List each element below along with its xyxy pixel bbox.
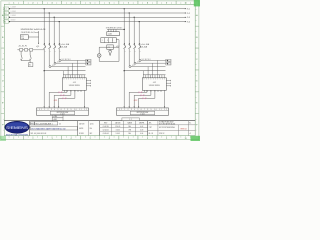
- wire T1 hairpin group 1: [66, 90, 68, 92]
- breaker Q2 pole 4: [139, 44, 141, 48]
- svg-text:BL. 03: BL. 03: [149, 133, 154, 135]
- wire T1 hairpin group 2: [146, 90, 148, 92]
- svg-text:+2: +2: [189, 133, 191, 135]
- project row box: [35, 122, 58, 125]
- wire drop phase 3 group 2: [134, 17, 135, 18]
- svg-text:5.4: 5.4: [168, 63, 170, 65]
- right section grid: [157, 121, 159, 136]
- annotation leader wire: [28, 36, 38, 38]
- breaker Q2 pole 1: [124, 44, 126, 48]
- pin rail above device box group 1: [63, 74, 86, 76]
- terminal strip X1 divider: [37, 109, 89, 111]
- svg-text:PROJ: PROJ: [31, 123, 35, 125]
- breaker Q2 pole 3: [134, 44, 136, 48]
- svg-text:/5.1: /5.1: [187, 9, 190, 11]
- frame column ticks bottom: [22, 136, 24, 140]
- svg-text:SIRIUS 3RW30: SIRIUS 3RW30: [149, 85, 160, 87]
- interruption point upper group 2: [166, 59, 171, 62]
- breaker Q1 pole 2: [49, 44, 51, 48]
- svg-text:1L1 3L2 5L3: 1L1 3L2 5L3: [142, 59, 151, 61]
- svg-text:-F1: -F1: [21, 36, 24, 38]
- description row box: [30, 127, 77, 130]
- svg-text:NORM: NORM: [79, 133, 84, 135]
- lamp P1: [30, 49, 33, 52]
- wire below breaker 1 group 2: [123, 48, 125, 70]
- sheet background: [0, 0, 200, 141]
- frame column ticks top: [22, 1, 24, 4]
- svg-text:-U1: -U1: [73, 82, 76, 84]
- plug connector -X1.2: [61, 94, 62, 96]
- plug connector -X2.2: [141, 94, 142, 96]
- bus L2 left potential label: [4, 11, 9, 14]
- svg-text:SIRIUS 3RW30: SIRIUS 3RW30: [69, 85, 80, 87]
- svg-text:12.4.05: 12.4.05: [115, 126, 120, 128]
- revision table grid: [111, 121, 113, 136]
- wire T2 hairpin group 1: [70, 90, 72, 95]
- sheet scale box above revision table: [122, 118, 139, 121]
- arrows into terminal strip group 1: [44, 106, 45, 108]
- interruption point upper group 1: [86, 59, 91, 62]
- interruption point lower group 2: [166, 62, 171, 65]
- plug connector -X2.3: [143, 97, 144, 99]
- svg-text:-U2: -U2: [153, 82, 156, 84]
- wire below breaker 3 group 2: [133, 48, 135, 62]
- svg-text:1 : 1: 1 : 1: [129, 119, 132, 121]
- node L2 turn group 2: [129, 66, 131, 68]
- wire T3 hairpin group 2: [154, 90, 156, 98]
- node L1 turn group 2: [124, 70, 125, 71]
- svg-text:12.05: 12.05: [90, 123, 94, 125]
- plug connector -X1.1: [59, 91, 60, 93]
- frame row ticks right: [195, 25, 199, 27]
- svg-text:9.9.05: 9.9.05: [116, 133, 120, 135]
- wire T2 hairpin group 2: [150, 90, 152, 95]
- frame outer border right: [198, 1, 200, 140]
- svg-text:2T1: 2T1: [137, 62, 140, 64]
- svg-text:GEPR.: GEPR.: [79, 128, 84, 130]
- corner accent top-right: [194, 0, 200, 6]
- switch contact S2 stem: [29, 51, 31, 55]
- node N turn group 2: [139, 59, 141, 61]
- device box top pins group 2: [143, 75, 145, 78]
- svg-text:L3/400V: L3/400V: [11, 15, 16, 17]
- wire below breaker 2 group 1: [48, 48, 50, 65]
- bus L1 left potential label: [4, 7, 9, 10]
- bus L3 right interruption arrow: [185, 17, 187, 18]
- terminal strip X1 outer box: [37, 108, 89, 115]
- svg-text:/5.2: /5.2: [187, 13, 190, 15]
- svg-text:NR. 04 | 400-SK1-03: NR. 04 | 400-SK1-03: [31, 133, 47, 135]
- wire drop phase 2 group 2: [129, 12, 130, 13]
- svg-text:VON 12: VON 12: [159, 133, 165, 135]
- svg-text:-X1 1 2 3 4 5 6 7 8 9 10 11 12: -X1 1 2 3 4 5 6 7 8 9 10 11 12: [38, 109, 87, 111]
- frame minor ticks right: [195, 9, 196, 11]
- control loop top wire: [99, 46, 119, 48]
- terminal strip X2 inner label box: [130, 111, 154, 115]
- wire below breaker 1 group 1: [43, 48, 45, 70]
- frame minor ticks left: [3, 9, 4, 11]
- frame minor ticks top: [8, 2, 10, 4]
- control feed wire group 2: [107, 28, 124, 30]
- wire drop phase 3 group 1: [54, 17, 55, 18]
- breaker Q2 pole 2: [129, 44, 131, 48]
- node L2 turn group 1: [49, 66, 51, 68]
- arrows into terminal strip group 2: [124, 106, 125, 108]
- svg-text:4T2: 4T2: [132, 65, 135, 67]
- svg-text:5.2: 5.2: [88, 60, 90, 62]
- wire drop phase 1 group 1: [44, 8, 45, 9]
- control loop bottom wire: [99, 60, 119, 62]
- svg-text:MOTOR M1 4kW: MOTOR M1 4kW: [57, 112, 69, 114]
- bus L3 left potential label: [4, 16, 9, 19]
- node N turn group 1: [59, 59, 61, 61]
- wire below breaker 4 group 1: [58, 48, 60, 59]
- svg-text:4T2: 4T2: [52, 65, 55, 67]
- wire T3 hairpin group 1: [74, 90, 76, 98]
- soft starter U1 box: [62, 78, 86, 91]
- pilot bottom wire: [21, 60, 30, 62]
- svg-text:-XS2: -XS2: [134, 100, 138, 102]
- svg-text:INDUSTRIAL SYSTEMS: INDUSTRIAL SYSTEMS: [6, 133, 29, 136]
- frame outer border left: [0, 1, 2, 140]
- svg-text:3.6.05: 3.6.05: [116, 129, 120, 131]
- control loop left lower wire: [98, 57, 100, 61]
- svg-text:6,3-10A: 6,3-10A: [61, 46, 68, 49]
- terminal row box group 2: [101, 38, 117, 43]
- wire module to loop group 2: [116, 39, 119, 41]
- svg-text:01.02.99: 01.02.99: [103, 126, 109, 128]
- wire drop phase 4 group 1: [59, 21, 60, 22]
- wire drop phase 1 group 2: [124, 8, 125, 9]
- svg-text:5.2: 5.2: [168, 60, 170, 62]
- location label box upper: [52, 115, 63, 118]
- horn H2 symbol: [109, 51, 112, 56]
- svg-text:1: 1: [102, 40, 103, 42]
- svg-text:MOTOR M2 4kW: MOTOR M2 4kW: [137, 112, 149, 114]
- svg-text:REV 04: REV 04: [181, 129, 187, 131]
- plug connector -X2.1: [139, 91, 140, 93]
- device box top pins group 1: [63, 75, 65, 78]
- device box right stubs group 1: [86, 80, 90, 82]
- bus L2 line: [10, 12, 186, 14]
- bus L1 right interruption arrow: [185, 8, 187, 9]
- supply terminal box -F1: [20, 35, 28, 40]
- wire below breaker 4 group 2: [138, 48, 140, 59]
- svg-text:K1: K1: [29, 65, 31, 67]
- svg-text:URSPR.: URSPR.: [139, 122, 145, 124]
- interruption point lower group 1: [86, 62, 91, 65]
- node L1 turn group 1: [44, 70, 45, 71]
- pushbutton S1: [20, 49, 23, 52]
- svg-text:SIEMENS: SIEMENS: [6, 126, 29, 130]
- svg-text:2T1: 2T1: [57, 62, 60, 64]
- device box bottom pins group 1: [63, 90, 65, 92]
- svg-text:/5.3: /5.3: [187, 17, 190, 19]
- switch stem arrowheads: [21, 59, 22, 60]
- plug connector -X1.3: [63, 97, 64, 99]
- wire L1 down to strip group 2: [123, 71, 125, 107]
- title block mid verticals: [77, 121, 79, 136]
- svg-text:MH: MH: [129, 126, 131, 128]
- corner accent bottom-right: [191, 136, 201, 141]
- project header mini cell: [30, 122, 34, 125]
- svg-text:KH: KH: [90, 128, 92, 130]
- svg-text:6,3-10A: 6,3-10A: [141, 46, 148, 49]
- junction box K1A: [28, 63, 33, 67]
- breaker Q1 pole 4: [59, 44, 61, 48]
- wire L1 down to strip group 1: [43, 71, 45, 107]
- location label box lower: [52, 118, 63, 121]
- bus L3 line: [10, 16, 186, 18]
- svg-text:02.04.01: 02.04.01: [103, 129, 109, 131]
- node L3 turn group 2: [134, 62, 136, 64]
- svg-text:MOTORABZWEIG SANFTSTARTER M1: MOTORABZWEIG SANFTSTARTER M1 / M2: [31, 127, 65, 130]
- breaker Q1 pole 3: [54, 44, 56, 48]
- svg-text:MOTORSTEUERUNG: MOTORSTEUERUNG: [159, 127, 176, 129]
- svg-text:-X2 1 2 3 4 5 6 7 8 9 10 11 12: -X2 1 2 3 4 5 6 7 8 9 10 11 12: [118, 109, 167, 111]
- relay module A2 box: [107, 32, 120, 36]
- annotation leader arrow: [38, 43, 39, 44]
- breaker Q1 pole 1: [44, 44, 46, 48]
- soft starter U2 pin numbers: [143, 78, 145, 79]
- corner accent bottom-left: [0, 136, 6, 141]
- thermistor relay F2 box: [107, 45, 114, 49]
- company logo ellipse: [5, 121, 29, 133]
- svg-text:ZULEITUNG 5x2,5mm2: ZULEITUNG 5x2,5mm2: [21, 32, 39, 34]
- bus N left potential label: [4, 20, 9, 23]
- svg-text:WB: WB: [128, 129, 130, 131]
- wire below breaker 3 group 1: [53, 48, 55, 62]
- frame minor ticks bottom: [8, 136, 10, 138]
- control loop right wire: [118, 47, 120, 61]
- relay module pins group 2: [108, 29, 110, 31]
- riser wires to device box group 2: [143, 71, 145, 75]
- svg-text:4.03: 4.03: [140, 129, 143, 131]
- svg-text:L2/400V: L2/400V: [11, 11, 16, 13]
- svg-text:N/400V: N/400V: [11, 20, 16, 22]
- frame row ticks left: [1, 25, 4, 27]
- wire drop phase 4 group 2: [139, 21, 140, 22]
- svg-text:-XS1: -XS1: [54, 100, 58, 102]
- bus L1 line: [10, 8, 186, 10]
- frame outer border top: [1, 0, 199, 2]
- svg-text:4.02: 4.02: [140, 126, 143, 128]
- bus N line: [10, 21, 186, 23]
- wire N down group 2: [164, 90, 166, 106]
- svg-text:MH: MH: [129, 133, 131, 135]
- riser wires to device box group 1: [63, 71, 65, 75]
- device box right stubs group 2: [166, 80, 170, 82]
- wire below breaker 2 group 2: [128, 48, 130, 65]
- svg-text:ORT: ORT: [149, 127, 152, 129]
- terminal strip X1 inner label box: [50, 111, 74, 115]
- frame outer border bottom: [1, 139, 199, 141]
- svg-text:L1/400V: L1/400V: [11, 7, 16, 9]
- svg-text:3~400V: 3~400V: [140, 114, 145, 116]
- node L3 turn group 1: [54, 62, 56, 64]
- lamp P2 circle: [98, 47, 100, 53]
- bus L2 right interruption arrow: [185, 12, 187, 13]
- soft starter U2 box: [142, 78, 166, 91]
- svg-text:-S1 -S2 -P1: -S1 -S2 -P1: [18, 45, 27, 47]
- pilot wiring top: [17, 49, 19, 51]
- svg-text:4.04: 4.04: [140, 133, 143, 135]
- wire N down group 1: [84, 90, 86, 106]
- svg-text:/5.4: /5.4: [187, 21, 190, 23]
- title block logo cell divider: [29, 121, 31, 136]
- wire from S2 to junction box: [29, 61, 31, 63]
- svg-text:03.09.04: 03.09.04: [103, 133, 109, 135]
- device box bottom pins group 2: [143, 90, 145, 92]
- pin rail above device box group 2: [143, 74, 166, 76]
- bus N right interruption arrow: [185, 21, 187, 22]
- svg-text:1L1 3L2 5L3: 1L1 3L2 5L3: [62, 59, 71, 61]
- svg-text:5.4: 5.4: [88, 63, 90, 65]
- terminal strip X2 outer box: [117, 108, 169, 115]
- svg-text:-F2: -F2: [108, 47, 110, 49]
- soft starter U1 pin numbers: [63, 78, 65, 79]
- svg-text:04: 04: [59, 123, 61, 125]
- pushbutton S2: [25, 49, 28, 52]
- frame inner border: [4, 4, 195, 135]
- svg-text:MCC-400V ANLAGE 1: MCC-400V ANLAGE 1: [36, 122, 53, 125]
- title block top border: [4, 120, 195, 122]
- terminal strip X2 divider: [117, 109, 169, 111]
- wire drop phase 2 group 1: [49, 12, 50, 13]
- svg-text:REV: REV: [104, 122, 107, 124]
- switch contact S1 stem: [20, 51, 22, 55]
- middle info cells: [88, 121, 90, 136]
